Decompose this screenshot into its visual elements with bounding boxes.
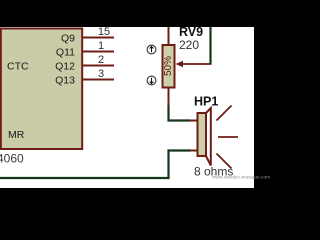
svg-text:Q12: Q12 [55, 60, 75, 72]
svg-text:Q11: Q11 [56, 46, 75, 58]
svg-text:Q9: Q9 [61, 32, 75, 44]
svg-text:CTC: CTC [7, 60, 29, 72]
potentiometer RV9 top lead [168, 27, 170, 46]
svg-text:MR: MR [8, 129, 25, 141]
svg-text:50%: 50% [163, 56, 174, 76]
pin 2 (Q12) [82, 65, 114, 67]
svg-text:220: 220 [179, 38, 199, 52]
speaker HP1 body [198, 113, 207, 156]
pin 1 (Q11) [82, 51, 114, 53]
potentiometer RV9 wiper arrow [180, 63, 212, 65]
sound wave line lower [217, 154, 232, 169]
svg-text:2: 2 [98, 54, 104, 66]
sound wave line middle [218, 136, 238, 138]
IC U1 4060 body [1, 29, 82, 150]
svg-text:Q13: Q13 [55, 74, 75, 86]
svg-text:1: 1 [98, 40, 104, 52]
schematic white canvas [0, 27, 254, 188]
svg-text:www.sonelec-musique.com: www.sonelec-musique.com [212, 175, 270, 181]
decrement button (down arrow) [147, 76, 156, 85]
svg-text:15: 15 [98, 26, 110, 38]
speaker HP1 plus pin stub [190, 120, 198, 122]
wire pot bottom to speaker plus [169, 105, 191, 121]
wire wiper to top net [209, 27, 211, 64]
potentiometer RV9 bottom lead [168, 88, 170, 107]
pin 15 (Q9) [82, 37, 114, 39]
pin 3 (Q13) [82, 79, 114, 81]
sound wave line upper [217, 106, 232, 121]
svg-text:4060: 4060 [0, 152, 24, 166]
increment button (up arrow) [147, 45, 156, 54]
wire speaker minus to ground rail [0, 151, 191, 179]
speaker HP1 minus pin stub [190, 150, 198, 152]
potentiometer RV9 body [163, 45, 175, 88]
svg-text:HP1: HP1 [194, 94, 218, 108]
speaker HP1 cone [206, 108, 211, 166]
svg-text:3: 3 [98, 68, 104, 80]
